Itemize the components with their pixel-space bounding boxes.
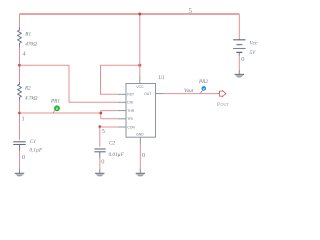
ground (U1) (136, 170, 145, 177)
svg-text:GND: GND (136, 133, 144, 137)
svg-text:0.1µF: 0.1µF (30, 148, 43, 154)
wire: RST to VCC drop (101, 65, 140, 94)
svg-text:470Ω: 470Ω (25, 40, 37, 47)
svg-text:Vcc: Vcc (250, 40, 258, 46)
junction CON corner (99, 125, 102, 128)
wire: C1 to ground (19, 151, 21, 171)
svg-text:4.7kΩ: 4.7kΩ (25, 95, 38, 102)
wire: CON to C2 (100, 127, 118, 147)
wire: VCC drop from top rail (139, 14, 141, 76)
op-amp/timer U1 box (126, 84, 156, 138)
junction RST/VCC (138, 64, 141, 67)
svg-text:5V: 5V (250, 50, 257, 56)
wire: OUT to connector (Vout net) (164, 93, 217, 95)
pin stub TRI (118, 118, 126, 120)
svg-text:U1: U1 (159, 75, 166, 81)
capacitor C1 (13, 142, 26, 151)
svg-text:5: 5 (102, 128, 105, 135)
junction top rail (138, 13, 141, 16)
wire: node1 horizontal to THR/TRI (20, 112, 101, 114)
pin stub GND bottom (139, 137, 141, 144)
svg-text:1: 1 (22, 116, 25, 123)
off-page connector Pout stub (217, 93, 220, 95)
svg-text:OUT: OUT (221, 102, 230, 107)
probe PR2 (201, 86, 207, 93)
wire: THR/TRI tie bar with junction (101, 111, 118, 119)
svg-text:Vout: Vout (184, 88, 194, 94)
battery Vcc 5V (233, 40, 245, 56)
junction THR/TRI (99, 112, 102, 115)
ground (C2) (95, 170, 104, 177)
svg-text:VCC: VCC (136, 85, 144, 89)
pin stub VCC (139, 76, 141, 84)
pin stub CON (118, 126, 126, 128)
svg-text:PR2: PR2 (198, 79, 208, 85)
wire: R2 bottom to node 1 junction (19, 101, 21, 141)
svg-text:THR: THR (127, 109, 135, 113)
svg-text:0: 0 (241, 56, 244, 63)
pin stub OUT (156, 93, 164, 95)
resistor R1 (18, 28, 22, 47)
wire: rail down to battery (238, 14, 240, 40)
svg-text:DIS: DIS (127, 101, 133, 105)
wire: C2 to ground (99, 158, 101, 171)
svg-text:CON: CON (127, 125, 135, 129)
svg-text:C2: C2 (109, 141, 115, 147)
wire: GND pin to ground (139, 145, 141, 171)
junction node 4 (18, 64, 21, 67)
svg-text:OUT: OUT (144, 92, 151, 96)
wire: battery to ground (238, 55, 240, 72)
svg-text:5: 5 (189, 7, 193, 15)
wire: left vertical from rail to R1 (19, 14, 21, 29)
svg-text:RST: RST (127, 93, 134, 97)
wire: node4 to DIS (net 4) (20, 65, 118, 102)
svg-text:0: 0 (142, 152, 145, 159)
svg-text:0.01µF: 0.01µF (109, 152, 125, 158)
svg-text:PR1: PR1 (50, 99, 60, 105)
wire: top VCC rail net 5 (20, 13, 240, 15)
ground (battery) (235, 71, 244, 78)
pin stub RST (118, 93, 126, 95)
svg-text:0: 0 (101, 159, 104, 166)
wire: R1 bottom to node 4 junction (19, 47, 21, 83)
svg-text:TRI: TRI (127, 117, 133, 121)
pin stub DIS (118, 101, 126, 103)
resistor R2 (18, 82, 22, 100)
off-page connector Pout arrow (220, 91, 226, 97)
svg-text:0: 0 (22, 154, 25, 161)
junction node 1 (18, 112, 21, 115)
ground (C1) (15, 170, 24, 177)
svg-text:R2: R2 (24, 86, 31, 92)
svg-text:C1: C1 (30, 139, 36, 145)
capacitor C2 (94, 149, 105, 158)
pin stub THR (118, 110, 126, 112)
probe PR1 (53, 105, 60, 113)
svg-text:R1: R1 (24, 31, 31, 37)
